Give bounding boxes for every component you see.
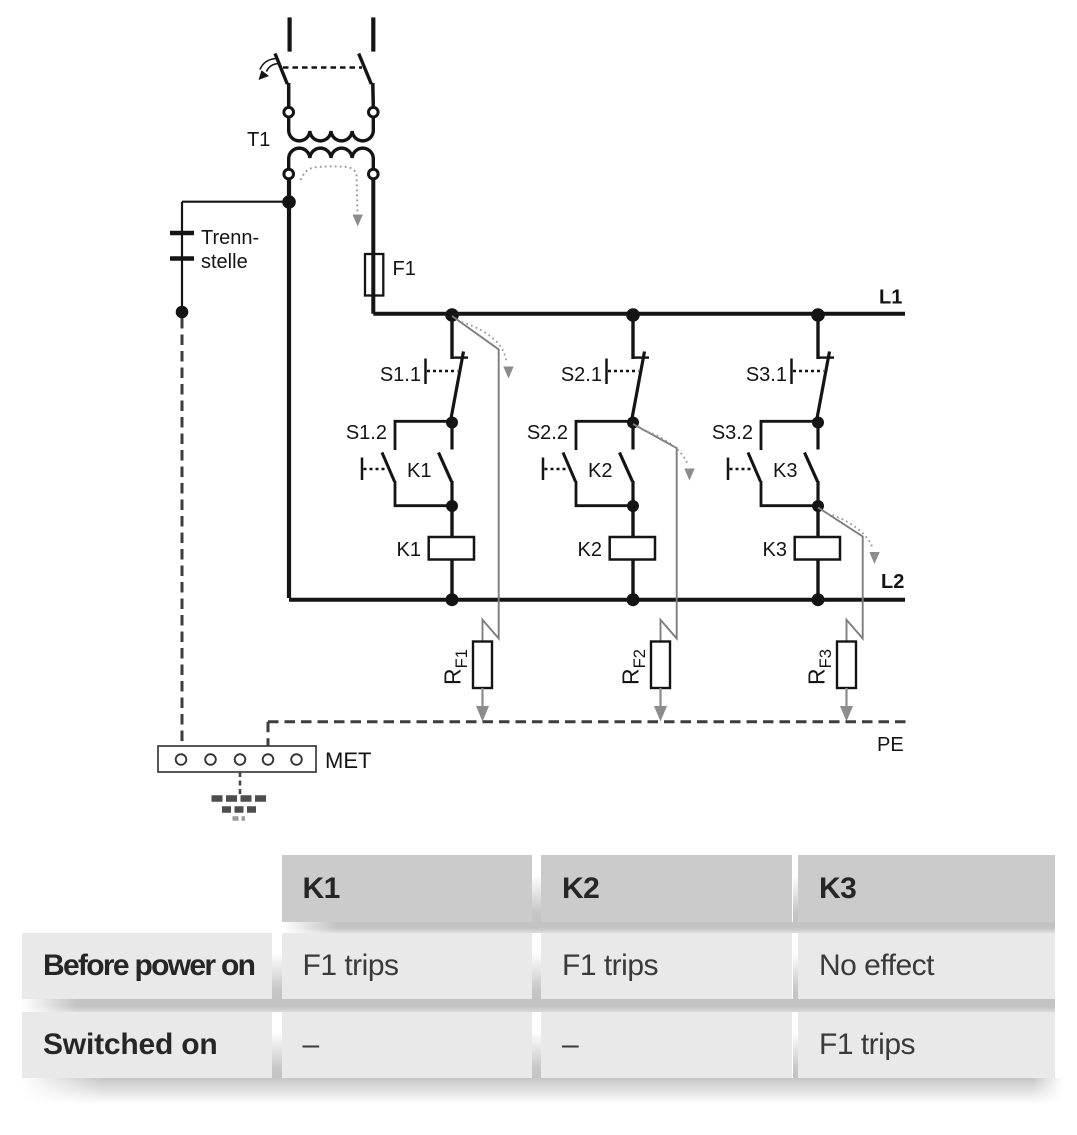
branch 3: wire L1 to S3.1 <box>811 308 825 359</box>
svg-text:L1: L1 <box>879 287 902 309</box>
gray arrow R_F3 to PE <box>840 688 853 722</box>
wire coil to L2 <box>631 560 634 599</box>
gray arrow R_F1 to PE <box>476 688 489 722</box>
contact S2.1 (NC pushbutton) <box>607 352 650 422</box>
dashed earth conductor to MET <box>181 318 184 746</box>
Trennstelle branch wire <box>181 202 183 311</box>
svg-text:S2.1: S2.1 <box>561 364 602 386</box>
parallel combination S3.2 / K3 aux <box>728 421 818 506</box>
table header cell K3 <box>798 855 1055 922</box>
node L2 junction <box>627 593 640 606</box>
svg-text:K1: K1 <box>397 539 421 561</box>
node S3.2 top junction <box>812 417 824 429</box>
table header cell K2 <box>541 855 792 922</box>
table header cell K1 <box>282 855 532 922</box>
coil K3 <box>795 537 840 560</box>
column gap strips row 2 <box>272 1012 282 1078</box>
resistor R_F3 <box>837 642 856 689</box>
svg-text:K3: K3 <box>773 460 797 482</box>
transformer T1 primary terminal circles <box>284 107 294 117</box>
coil K1 <box>429 537 474 560</box>
column gap strips header row <box>532 855 542 922</box>
svg-text:S3.2: S3.2 <box>712 422 753 444</box>
supply lead pole 1 <box>288 17 292 51</box>
svg-text:S1.2: S1.2 <box>346 422 387 444</box>
branch 2: wire L1 to S2.1 <box>626 308 640 359</box>
earth stub below MET <box>239 772 242 794</box>
wire secondary to F1 and down to L1 <box>371 179 375 314</box>
svg-text:RF1: RF1 <box>440 649 472 685</box>
wire coil to L2 <box>450 560 453 599</box>
node S2.2 top junction <box>627 417 639 429</box>
dotted trip arrow branch 2 <box>643 430 695 481</box>
svg-text:K2: K2 <box>588 460 612 482</box>
transformer T1 secondary winding <box>289 148 374 169</box>
node secondary-left junction <box>282 195 296 209</box>
dotted induced current arrow at secondary <box>301 166 363 226</box>
svg-text:K3: K3 <box>763 539 787 561</box>
fault current path to R_F1 (gray) <box>452 316 499 642</box>
fault current path to R_F3 (gray) <box>818 508 863 642</box>
svg-text:K1: K1 <box>407 460 431 482</box>
MET terminal circles <box>176 754 302 765</box>
branch 1: wire L1 to S1.1 <box>445 308 459 359</box>
svg-text:stelle: stelle <box>201 251 248 273</box>
node L2 junction <box>812 593 825 606</box>
contact S3.1 (NC pushbutton) <box>792 352 835 422</box>
svg-text:RF3: RF3 <box>804 649 836 685</box>
label R_F3 <box>804 649 836 685</box>
dotted trip arrow branch 3 <box>828 514 880 565</box>
svg-text:PE: PE <box>877 734 904 756</box>
svg-text:RF2: RF2 <box>618 649 650 685</box>
node S1.2 top junction <box>446 417 458 429</box>
supply lead pole 2 <box>371 17 375 51</box>
resistor R_F2 <box>651 642 670 689</box>
dotted trip arrow branch 1 <box>462 322 514 379</box>
switch Q pole 2 lever <box>359 54 372 85</box>
table row label: Before power on <box>22 933 272 999</box>
bus L1 <box>373 312 905 316</box>
parallel combination S1.2 / K1 aux <box>362 421 452 506</box>
main left conductor down to L2 <box>287 179 291 598</box>
wire junction to coil K1 <box>450 506 453 537</box>
table gap band under row 2 (bottom shadow) <box>22 1078 1063 1104</box>
Trennstelle separable-joint bars <box>170 231 194 236</box>
resistor R_F1 <box>473 642 492 689</box>
wire coil to L2 <box>816 560 819 599</box>
node coil top junction <box>812 500 824 512</box>
gray arrow R_F2 to PE <box>654 688 667 722</box>
transformer T1 primary winding <box>289 117 374 141</box>
table gap band under row 1 <box>22 999 1055 1012</box>
svg-text:T1: T1 <box>247 129 270 151</box>
coil K2 <box>610 537 655 560</box>
wire junction to coil K2 <box>631 506 634 537</box>
svg-text:MET: MET <box>325 748 371 773</box>
svg-text:K2: K2 <box>578 539 602 561</box>
label R_F2 <box>618 649 650 685</box>
earth electrode bars <box>212 795 268 802</box>
wire pole2 to primary terminal <box>371 83 375 108</box>
fault current path to R_F2 (gray) <box>633 424 677 642</box>
svg-text:L2: L2 <box>881 571 904 593</box>
svg-text:S1.1: S1.1 <box>380 364 421 386</box>
wire pole1 to primary terminal <box>287 83 291 108</box>
switch linkage (dashed) <box>283 66 362 69</box>
wire junction to coil K3 <box>816 506 819 537</box>
svg-text:S3.1: S3.1 <box>746 364 787 386</box>
contact S1.1 (NC pushbutton) <box>426 352 469 422</box>
svg-text:Trenn-: Trenn- <box>201 227 259 249</box>
dashed bus PE <box>268 720 907 723</box>
svg-text:S2.2: S2.2 <box>527 422 568 444</box>
transformer T1 secondary terminal circles <box>284 169 294 179</box>
node coil top junction <box>627 500 639 512</box>
node L2 junction <box>446 593 459 606</box>
MET terminal strip <box>158 746 316 772</box>
switch actuation arrow <box>259 59 279 81</box>
node below Trennstelle <box>176 306 189 319</box>
fuse F1 <box>365 254 383 296</box>
node coil top junction <box>446 500 458 512</box>
dashed PE drop to MET <box>267 722 270 746</box>
label R_F1 <box>440 649 472 685</box>
switch Q pole 1 lever <box>275 54 287 85</box>
wire junction to Trennstelle branch <box>182 201 289 203</box>
column gap strips row 1 <box>272 933 282 999</box>
parallel combination S2.2 / K2 aux <box>543 421 633 506</box>
svg-text:F1: F1 <box>393 258 416 280</box>
bus L2 <box>289 598 905 602</box>
table row label: Switched on <box>22 1012 272 1078</box>
table gap band under header row <box>282 922 1056 933</box>
